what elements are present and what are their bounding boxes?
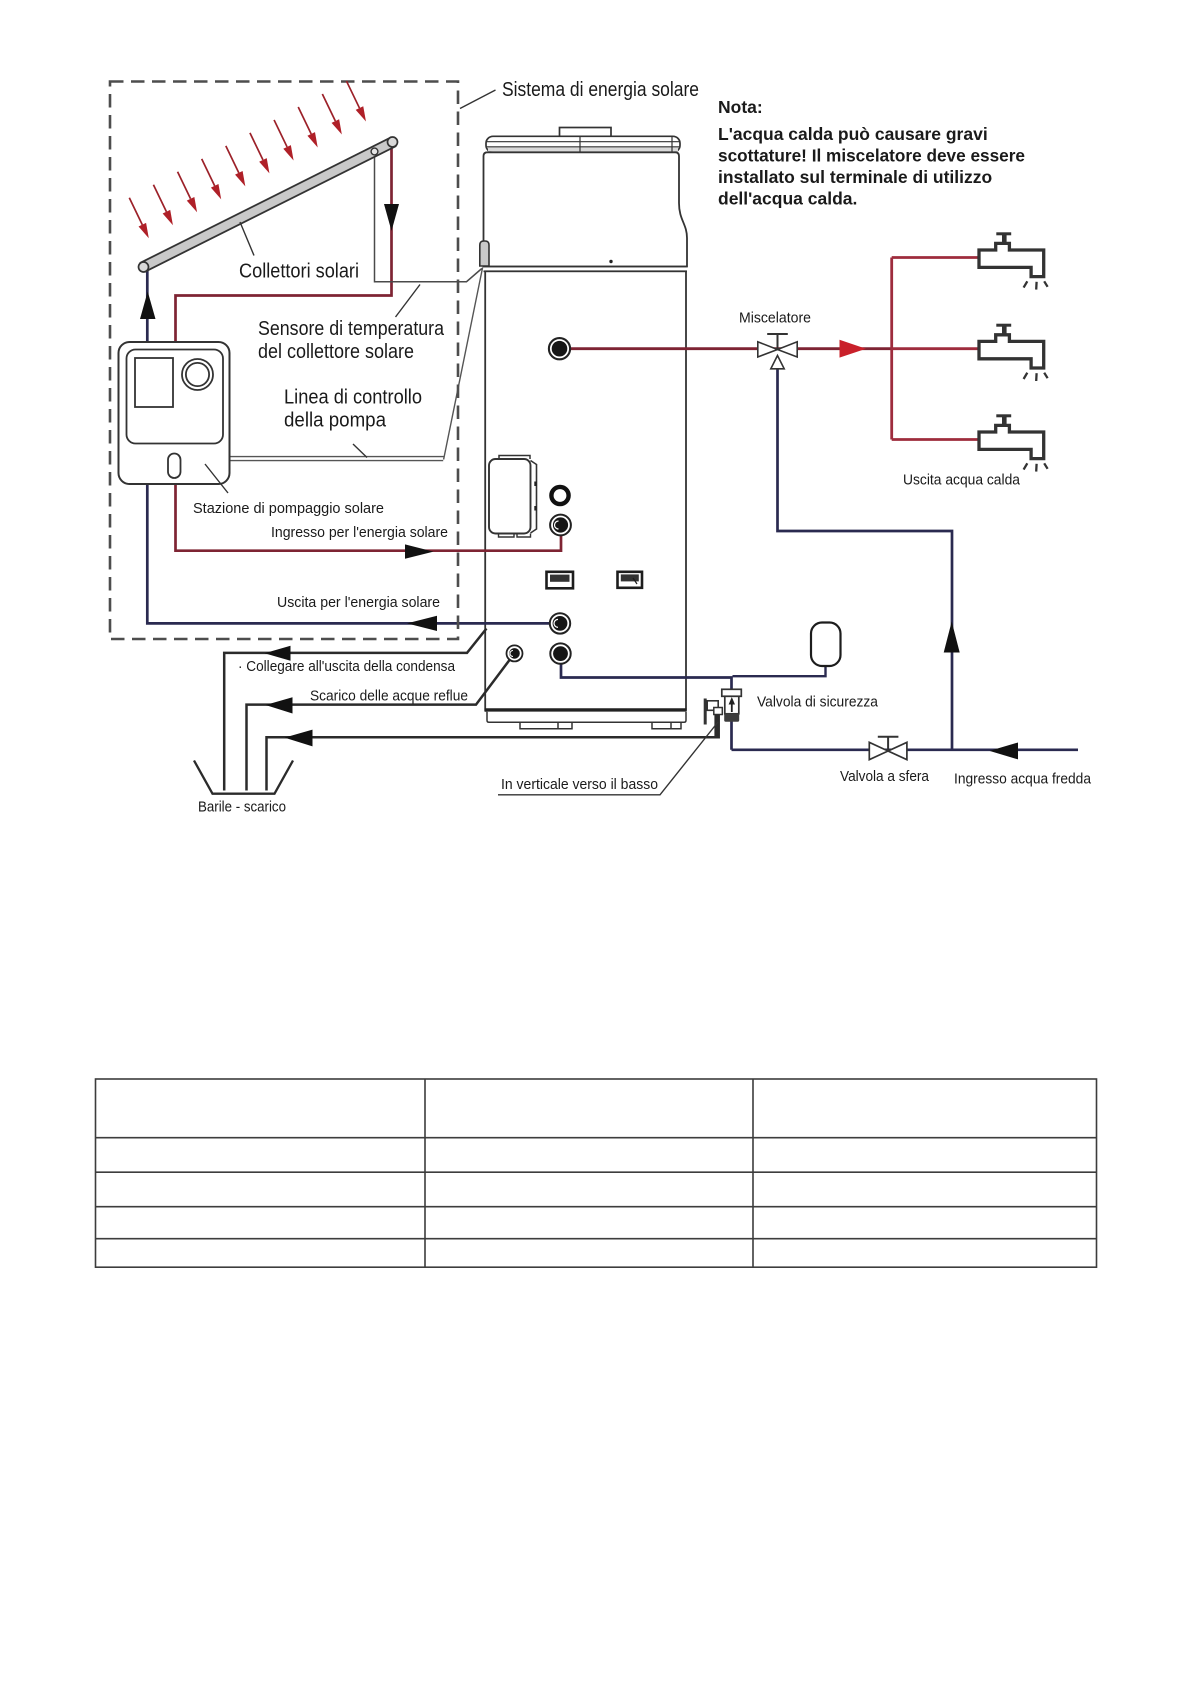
callout line sensore di temperatura [396,285,421,318]
svg-text:In verticale verso il basso: In verticale verso il basso [501,777,658,793]
svg-text:scottature! Il miscelatore dev: scottature! Il miscelatore deve essere [718,146,1025,166]
label ingresso acqua fredda [954,772,1092,788]
wire hot water out (tank to miscelatore to junction, dark red) [570,347,892,350]
port solar energy inlet [550,515,571,536]
label uscita acqua calda [903,473,1021,489]
callout line collettori solari [240,222,254,256]
port hot water outlet [549,338,570,359]
wire solar hot supply (collector to pump station to tank solar inlet, dark red) [176,147,562,551]
TANK-LAYER (under pipes) [480,128,687,729]
arrow up on solar return near collector [140,292,156,320]
svg-text:L'acqua calda può causare grav: L'acqua calda può causare gravi [718,124,988,144]
svg-text:Sistema di energia solare: Sistema di energia solare [502,79,699,101]
svg-text:Ingresso acqua fredda: Ingresso acqua fredda [954,772,1092,788]
tank foot left [520,722,572,729]
tank foot right [652,722,681,729]
arrow left on Uscita per l'energia solare line [407,616,437,631]
arrow down on solar hot supply near collector [384,204,399,231]
arrow right on Ingresso per l'energia solare line [405,544,434,558]
label linea di controllo [284,387,422,432]
water heater tank body [485,271,686,710]
wire hot water distribution to faucets (crimson) [892,258,979,440]
PIPES-LAYER [140,147,1078,791]
svg-text:Valvola a sfera: Valvola a sfera [840,769,930,785]
water heater upper housing (heat pump section) [484,152,688,271]
sun rays (10 red arrows) [129,81,366,238]
svg-text:Nota:: Nota: [718,97,763,117]
drain barrel (barile - scarico) [194,761,293,794]
arrow flow bright red after miscelatore [840,340,867,358]
svg-text:Linea di controllo: Linea di controllo [284,387,422,409]
svg-text:Ingresso per l'energia solare: Ingresso per l'energia solare [271,525,448,541]
label nota heading [718,97,763,117]
wire safety valve discharge C [267,714,719,791]
svg-text:Valvola di sicurezza: Valvola di sicurezza [757,695,879,711]
label collettori solari [239,261,359,283]
label stazione di pompaggio solare [193,501,384,517]
expansion vessel [811,623,841,667]
callout line in verticale verso il basso [498,722,718,795]
svg-text:Scarico delle acque reflue: Scarico delle acque reflue [310,689,468,705]
arrow left on cold inlet line [990,743,1019,760]
port solar energy outlet [550,613,570,633]
label valvola a sfera [840,769,930,785]
water heater tank top cap [486,136,680,152]
arrow left on waste water drain [266,697,293,713]
note warning paragraph [718,124,1025,209]
tank bottom thick edge [485,708,687,711]
anode slot right [618,572,643,588]
arrow left on condensate drain [265,646,291,661]
label in verticale verso il basso [501,777,658,793]
port upper ring (empty) [551,487,568,504]
label scarico delle acque reflue [310,689,468,705]
anode slot left [547,572,574,589]
label sistema di energia solare [502,79,699,101]
wire pump control line (double) [230,268,483,461]
ball valve (valvola a sfera) [869,737,907,760]
label ingresso per l'energia solare [271,525,448,541]
solar collector panel tube [139,137,398,272]
arrow up on cold riser [944,622,960,653]
svg-text:Miscelatore: Miscelatore [739,311,811,327]
wire waste water drain B [247,660,510,791]
svg-text:del collettore solare: del collettore solare [258,341,414,363]
pump station (Stazione di pompaggio solare) [119,342,230,493]
svg-text:Uscita acqua calda: Uscita acqua calda [903,473,1021,489]
svg-text:Uscita per l'energia solare: Uscita per l'energia solare [277,595,440,611]
port cold water inlet [550,643,570,663]
table grid [96,1079,1097,1267]
svg-text:Collettori solari: Collettori solari [239,261,359,283]
svg-text:installato sul terminale di ut: installato sul terminale di utilizzo [718,167,992,187]
tank sensor tab [480,241,489,266]
faucet 2 [979,325,1048,381]
wire collector temperature sensor cable [375,152,482,282]
svg-text:della pompa: della pompa [284,410,387,432]
arrow left on safety valve discharge [285,730,313,747]
dashed boundary Sistema di energia solare [110,82,458,640]
wire expansion vessel stub [733,665,826,676]
svg-text:dell'acqua calda.: dell'acqua calda. [718,189,857,209]
label barile - scarico [198,800,286,816]
label valvola di sicurezza [757,695,879,711]
svg-text:Stazione di pompaggio solare: Stazione di pompaggio solare [193,501,384,517]
safety valve (valvola di sicurezza) [705,689,741,736]
label miscelatore [739,311,811,327]
COMPONENT-LAYER [110,81,1048,795]
svg-text:Sensore di temperatura: Sensore di temperatura [258,318,445,340]
wire cold water from miscelatore down (navy) [778,367,953,750]
wire condensate drain A [224,629,486,791]
port condensate outlet [507,645,523,661]
TABLE-LAYER [96,1079,1097,1267]
label sensore di temperatura [258,318,445,363]
svg-text:Barile - scarico: Barile - scarico [198,800,286,816]
faucet 1 [979,234,1048,290]
wire tank cold inlet to safety valve [561,664,732,750]
wire cold water main bottom line [732,748,1079,751]
tank base plate [487,712,686,723]
faucet 3 [979,416,1048,472]
water heater tank top vent [560,128,612,137]
label uscita per l'energia solare [277,595,440,611]
miscelatore mixing valve [758,334,797,369]
callout line sistema di energia solare [460,90,496,109]
svg-text:· Collegare all'uscita della c: · Collegare all'uscita della condensa [238,659,456,675]
TEXT-LAYER [193,79,1092,816]
label collegare all'uscita della condensa [238,659,456,675]
tank access panel [489,456,537,538]
callout line linea di controllo [353,444,367,458]
wire solar return (tank solar outlet to collector, navy) [147,270,550,623]
